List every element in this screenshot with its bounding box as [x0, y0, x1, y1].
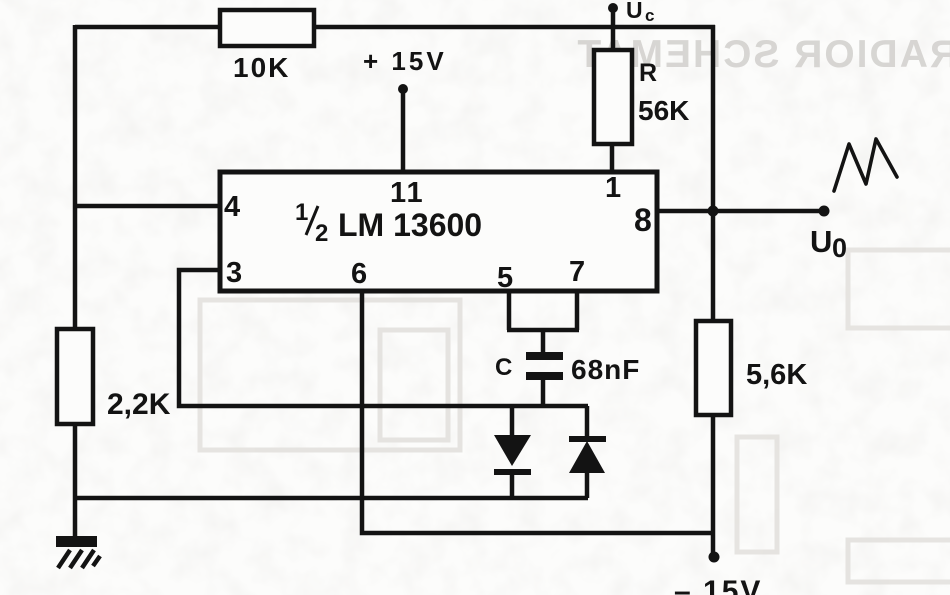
- resistor R2 2,2K body: [57, 329, 93, 424]
- svg-text:8: 8: [634, 202, 652, 238]
- resistor R1 10K body: [220, 10, 314, 46]
- ghost bleed-through blocks: [200, 250, 950, 582]
- svg-text:11: 11: [390, 177, 425, 209]
- svg-text:c: c: [645, 6, 654, 25]
- wire: pin 6 run to negative rail: [362, 290, 714, 533]
- svg-text:10K: 10K: [233, 52, 290, 83]
- svg-text:1: 1: [605, 172, 621, 204]
- svg-text:4: 4: [224, 191, 240, 223]
- wire: pin 7 stub: [575, 290, 580, 330]
- svg-text:LM 13600: LM 13600: [338, 207, 482, 243]
- ground: [56, 536, 100, 568]
- svg-text:2,2K: 2,2K: [107, 388, 171, 421]
- svg-text:+ 15V: + 15V: [363, 46, 447, 76]
- wire: pin 4 feed: [73, 204, 221, 209]
- wire: right vertical rail lower: [711, 414, 716, 557]
- svg-text:– 15V: – 15V: [674, 575, 762, 595]
- svg-text:68nF: 68nF: [571, 354, 640, 385]
- diode D2 (cathode up): [569, 406, 606, 498]
- waveform symbol: [834, 139, 897, 191]
- svg-text:6: 6: [351, 258, 367, 290]
- svg-text:C: C: [495, 354, 512, 381]
- wire: top rail right segment: [313, 25, 715, 30]
- wire: pin 5 stub: [507, 290, 512, 330]
- wire: capacitor top lead: [541, 330, 546, 353]
- svg-text:56K: 56K: [638, 95, 689, 126]
- wire: right vertical rail upper: [711, 25, 716, 322]
- resistor R3 5,6K body: [696, 321, 731, 415]
- svg-text:5,6K: 5,6K: [746, 359, 807, 391]
- svg-text:U: U: [810, 224, 832, 259]
- node U0 terminal: [810, 206, 847, 264]
- node +15V terminal: [363, 46, 447, 94]
- svg-text:1: 1: [295, 199, 308, 226]
- wire: pin 11 supply: [401, 89, 406, 173]
- ghost bleed-through headline (mirrored): [575, 33, 950, 76]
- svg-text:3: 3: [226, 257, 242, 289]
- svg-text:R: R: [639, 59, 657, 87]
- capacitor C 68nF: [526, 352, 563, 380]
- wire: Uc stub: [611, 8, 616, 52]
- resistor R 56K body: [594, 50, 632, 144]
- wire: pins 5-7 tie bar: [507, 328, 579, 333]
- junction: output node on right rail: [708, 206, 719, 217]
- node -15V terminal: [674, 552, 762, 595]
- wire: capacitor bottom lead: [541, 379, 546, 408]
- wire: left vertical rail lower: [73, 423, 78, 540]
- svg-text:2: 2: [315, 220, 328, 247]
- wire: pin 8 output: [657, 209, 824, 214]
- wire: pin 3 loop: [179, 270, 588, 406]
- diode D1 (cathode down): [494, 406, 531, 498]
- svg-text:U: U: [626, 0, 643, 23]
- svg-text:7: 7: [569, 256, 585, 288]
- wire: top rail left segment: [75, 25, 221, 30]
- node Uc terminal: [608, 0, 654, 25]
- wire: left vertical rail upper: [73, 25, 78, 331]
- IC label 1/2 LM13600: [295, 199, 482, 247]
- wire: pin 1 feed: [610, 143, 615, 173]
- wire: ground bus: [75, 496, 588, 501]
- svg-text:0: 0: [832, 233, 847, 263]
- op-amp U1 1/2 LM13600 body: [220, 172, 657, 291]
- svg-text:5: 5: [497, 262, 513, 294]
